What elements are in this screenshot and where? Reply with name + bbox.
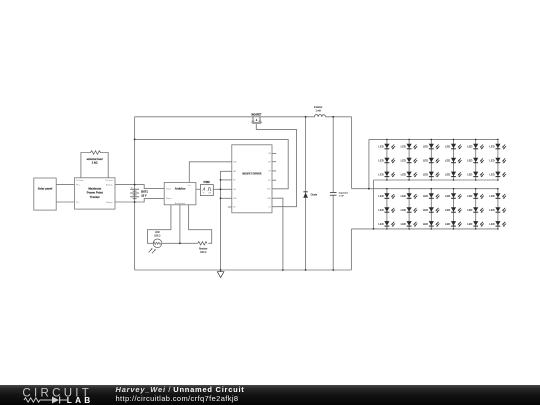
node junction driver COM ground bbox=[282, 269, 284, 271]
svg-text:Battery -: Battery - bbox=[106, 201, 114, 204]
node column 3 group1 top bbox=[431, 139, 433, 141]
LED D29 bbox=[467, 207, 484, 213]
node junction cap ground bbox=[332, 269, 334, 271]
wire resistor to arduino pin bbox=[189, 205, 212, 244]
wire LED return riser bbox=[350, 229, 352, 270]
wire LED column 1 riser group1 bbox=[386, 139, 388, 180]
node junction PWM bus pin LIN bbox=[220, 188, 222, 190]
wire driver pin stub left NC bbox=[228, 206, 232, 208]
node column 5 group2 top bbox=[475, 188, 477, 190]
MPPT module X2 bbox=[75, 178, 116, 209]
svg-text:Inductor: Inductor bbox=[314, 106, 323, 109]
svg-text:Resistor: Resistor bbox=[199, 248, 208, 251]
svg-text:external load: external load bbox=[87, 157, 103, 161]
wire group1 bottom rail bbox=[374, 179, 498, 181]
LED D21 bbox=[423, 193, 440, 199]
MOSFET driver U1 bbox=[232, 145, 272, 213]
wire bottom ground rail bbox=[135, 269, 352, 271]
svg-text:LDR: LDR bbox=[155, 232, 160, 234]
LED D7 bbox=[378, 158, 395, 164]
LED D9 bbox=[423, 158, 440, 164]
svg-text:Power Point: Power Point bbox=[87, 191, 103, 195]
wire arduino to PWM bbox=[196, 188, 201, 190]
transistor Q1 MOSFET bbox=[251, 113, 262, 123]
wire driver pin stub VB bbox=[272, 152, 276, 154]
node column 6 group2 top bbox=[497, 188, 499, 190]
wire bus link pin4 bbox=[221, 197, 232, 199]
node column 5 group1 top bbox=[475, 139, 477, 141]
wire PWM out to bus bbox=[213, 188, 220, 190]
svg-text:Capacitor: Capacitor bbox=[339, 192, 349, 195]
LED D2 bbox=[401, 144, 418, 150]
wire LED column 4 riser group1 bbox=[453, 139, 455, 180]
node junction LED return bbox=[373, 228, 375, 230]
wire external load left leg bbox=[81, 153, 91, 178]
footer bar bbox=[0, 385, 540, 405]
LED D1 bbox=[378, 144, 395, 150]
wire LED column 2 riser group2 bbox=[408, 189, 410, 229]
node junction PWM bus pin VSS bbox=[220, 197, 222, 199]
node column 1 group2 top bbox=[386, 188, 388, 190]
LED D34 bbox=[445, 221, 462, 227]
wire group2 bottom rail bbox=[351, 228, 498, 230]
wire LED column 1 riser group2 bbox=[386, 189, 388, 229]
LED D10 bbox=[445, 158, 462, 164]
battery BAT1 12V bbox=[130, 186, 148, 198]
solar panel X1 bbox=[34, 178, 56, 210]
LED D28 bbox=[445, 207, 462, 213]
node column 1 group1 top bbox=[386, 139, 388, 141]
svg-text:DC load +: DC load + bbox=[76, 180, 85, 182]
svg-text:Battery +: Battery + bbox=[106, 183, 115, 186]
wire LED feed rail / group2 top rail bbox=[352, 188, 498, 190]
node junction PWM bus pin SD bbox=[220, 179, 222, 181]
node column 2 group2 top bbox=[408, 188, 410, 190]
node column 2 group1 bottom bbox=[408, 179, 410, 181]
node junction switch node diode bbox=[305, 116, 307, 118]
node column 6 group1 bottom bbox=[497, 179, 499, 181]
LED D3 bbox=[423, 144, 440, 150]
svg-text:Tracker: Tracker bbox=[90, 195, 101, 199]
CircuitLab logo bbox=[15, 385, 125, 405]
wire external load right leg bbox=[100, 153, 108, 178]
node column 4 group2 bottom bbox=[453, 228, 455, 230]
wire driver input bus bbox=[221, 171, 232, 270]
svg-text:Maximum: Maximum bbox=[88, 186, 101, 190]
wire LDR to resistor bbox=[162, 242, 198, 244]
svg-text:PV -: PV - bbox=[76, 202, 80, 204]
wire arduino analog pin to divider node bbox=[179, 205, 181, 244]
node column 3 group2 top bbox=[431, 188, 433, 190]
LED D33 bbox=[423, 221, 440, 227]
LED D25 bbox=[378, 207, 395, 213]
svg-text:Out: Out bbox=[187, 184, 191, 187]
wire LED column 6 riser group2 bbox=[497, 189, 499, 229]
svg-text:BAT1: BAT1 bbox=[141, 190, 148, 194]
node junction LDR divider node bbox=[179, 242, 181, 244]
wire driver COM to ground rail bbox=[272, 198, 283, 270]
LED D15 bbox=[423, 172, 440, 178]
photoresistor LDR 100 Ohm bbox=[149, 232, 162, 253]
LED D19 bbox=[378, 193, 395, 199]
wire bus link pin3 bbox=[221, 188, 232, 190]
LED D13 bbox=[378, 172, 395, 178]
resistor R1 external load 1 kOhm bbox=[87, 151, 103, 165]
LED D30 bbox=[489, 207, 506, 213]
LED D5 bbox=[467, 144, 484, 150]
LED D31 bbox=[378, 221, 395, 227]
node column 3 group2 bottom bbox=[431, 228, 433, 230]
LED D17 bbox=[467, 172, 484, 178]
wire arduino Out to driver VDD bbox=[189, 162, 232, 183]
node junction battery minus terminal bbox=[134, 201, 136, 203]
resistor R2 100 Ohm bbox=[198, 242, 208, 254]
LED D23 bbox=[467, 193, 484, 199]
svg-text:100 Ω: 100 Ω bbox=[154, 236, 160, 238]
wire LED column 5 riser group2 bbox=[475, 189, 477, 229]
svg-text:PWM: PWM bbox=[204, 181, 210, 184]
wire group1 top rail bbox=[369, 138, 498, 140]
arduino U2 bbox=[164, 182, 196, 204]
node junction output cap top bbox=[332, 116, 334, 118]
svg-text:MOSFET: MOSFET bbox=[252, 113, 263, 116]
wire battery plus to arduino power bbox=[115, 185, 164, 189]
wire battery minus to arduino power bbox=[115, 198, 164, 202]
wire solar PV- bbox=[56, 201, 74, 203]
svg-text:1 kΩ: 1 kΩ bbox=[92, 161, 98, 165]
svg-text:1 mF: 1 mF bbox=[339, 196, 345, 198]
LED D32 bbox=[401, 221, 418, 227]
node column 2 group1 top bbox=[408, 139, 410, 141]
svg-text:DC load -: DC load - bbox=[106, 180, 114, 182]
LED D36 bbox=[489, 221, 506, 227]
svg-text:MOSFET DRIVER: MOSFET DRIVER bbox=[242, 173, 261, 175]
wire capacitor branch upper bbox=[332, 117, 334, 192]
node column 4 group1 bottom bbox=[453, 179, 455, 181]
LED D24 bbox=[489, 193, 506, 199]
svg-text:COM: COM bbox=[267, 198, 272, 200]
wire capacitor branch lower bbox=[332, 196, 334, 270]
node junction ground bus bbox=[220, 269, 222, 271]
wire driver pin stub HO bbox=[272, 161, 276, 163]
svg-text:Arduino: Arduino bbox=[175, 187, 186, 191]
LED D8 bbox=[401, 158, 418, 164]
svg-text:1 mH: 1 mH bbox=[315, 110, 321, 112]
wire inductor to output corner bbox=[326, 116, 352, 118]
wire left vertical riser bbox=[134, 117, 136, 270]
LED D14 bbox=[401, 172, 418, 178]
svg-text:Power: Power bbox=[166, 187, 172, 190]
wire LED column 3 riser group1 bbox=[430, 139, 432, 180]
LED D27 bbox=[423, 207, 440, 213]
wire freewheel diode branch bbox=[305, 117, 307, 270]
node column 2 group2 bottom bbox=[408, 228, 410, 230]
LED D35 bbox=[467, 221, 484, 227]
wire VB supply line y=139.4 to driver pin bbox=[135, 139, 289, 188]
LED D11 bbox=[467, 158, 484, 164]
svg-text:OUT: OUT bbox=[208, 193, 211, 195]
wire arduino pin to LDR left bbox=[148, 205, 171, 244]
diode D37 freewheel bbox=[303, 192, 318, 198]
wire group1 return jog bbox=[373, 180, 375, 229]
LED D18 bbox=[489, 172, 506, 178]
node column 4 group1 top bbox=[453, 139, 455, 141]
LED D20 bbox=[401, 193, 418, 199]
wire LED column 5 riser group1 bbox=[475, 139, 477, 180]
LED D4 bbox=[445, 144, 462, 150]
node junction battery plus rail bbox=[134, 139, 136, 141]
svg-text:100 Ω: 100 Ω bbox=[200, 252, 206, 254]
LED D22 bbox=[445, 193, 462, 199]
node column 5 group1 bottom bbox=[475, 179, 477, 181]
node junction battery plus terminal bbox=[134, 184, 136, 186]
LED D6 bbox=[489, 144, 506, 150]
wire LED column 4 riser group2 bbox=[453, 189, 455, 229]
svg-text:LAB: LAB bbox=[67, 396, 94, 405]
LED D26 bbox=[401, 207, 418, 213]
capacitor C1 1mF bbox=[330, 192, 349, 198]
LED D12 bbox=[489, 158, 506, 164]
node column 1 group2 bottom bbox=[386, 228, 388, 230]
svg-text:Solar panel: Solar panel bbox=[38, 187, 53, 191]
ground GND1 bbox=[217, 270, 224, 278]
wire gate line driver LO to MOSFET gate bbox=[256, 124, 296, 207]
node junction diode ground bbox=[305, 269, 307, 271]
wire solar PV+ bbox=[56, 184, 74, 186]
wire top rail from left riser to inductor bbox=[135, 116, 315, 118]
wire output riser to LED feed bbox=[351, 117, 353, 189]
inductor L1 1mH bbox=[314, 106, 325, 117]
node column 6 group2 bottom bbox=[497, 228, 499, 230]
wire bus link pin2 bbox=[221, 179, 232, 181]
PWM source V1 bbox=[200, 181, 213, 196]
svg-text:12 V: 12 V bbox=[141, 194, 147, 198]
node column 6 group1 top bbox=[497, 139, 499, 141]
LED D16 bbox=[445, 172, 462, 178]
svg-text:AnalogInput: AnalogInput bbox=[175, 202, 186, 205]
node column 4 group2 top bbox=[453, 188, 455, 190]
wire LED column 3 riser group2 bbox=[430, 189, 432, 229]
node column 3 group1 bottom bbox=[431, 179, 433, 181]
node column 5 group2 bottom bbox=[475, 228, 477, 230]
wire group1 left edge bbox=[368, 139, 370, 188]
node junction LED group1 feed bbox=[368, 188, 370, 190]
wire LED column 2 riser group1 bbox=[408, 139, 410, 180]
wire driver pin stub NC bbox=[272, 179, 276, 181]
wire LED column 6 riser group1 bbox=[497, 139, 499, 180]
svg-text:Diode: Diode bbox=[311, 193, 318, 196]
svg-text:Power: Power bbox=[166, 197, 172, 200]
node column 1 group1 bottom bbox=[386, 179, 388, 181]
wire driver pin stub VS bbox=[272, 170, 276, 172]
